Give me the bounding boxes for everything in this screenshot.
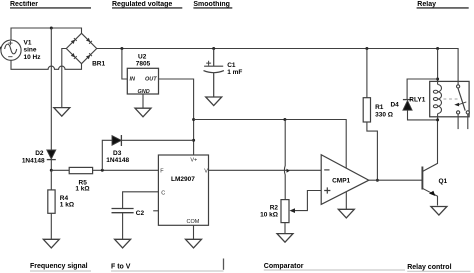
svg-text:7805: 7805: [136, 60, 151, 67]
label V1: [24, 40, 42, 61]
svg-text:10 kΩ: 10 kΩ: [260, 212, 278, 219]
svg-text:R1: R1: [375, 104, 384, 111]
underline Relay control: [407, 270, 470, 272]
ground under CMP1: [338, 209, 354, 218]
underline Rectifier: [10, 7, 91, 9]
label C2: [136, 210, 145, 217]
pin OUT: [145, 76, 157, 82]
node F line left junction: [50, 169, 53, 172]
section label Rectifier: [10, 1, 38, 8]
wire C2 to ground: [122, 213, 124, 240]
CMP1 plus pin mark: [324, 187, 330, 193]
label RLY1: [409, 97, 425, 104]
node D3 branch junction: [101, 169, 104, 172]
svg-text:V+: V+: [190, 158, 197, 164]
label U2: [136, 53, 151, 67]
svg-text:U2: U2: [138, 53, 147, 60]
diode D4 loop top wire: [407, 79, 438, 100]
label BR1: [92, 60, 105, 67]
capacitor C1: [204, 49, 224, 98]
wire V1 bottom to bridge bottom with hops: [11, 60, 82, 69]
node coil bottom junction: [436, 118, 439, 121]
relay common contact: [457, 85, 460, 88]
svg-text:GND: GND: [138, 89, 150, 95]
BR1 diode top-right: [86, 38, 92, 44]
wire throw stub left: [457, 114, 459, 129]
svg-text:1N4148: 1N4148: [106, 157, 129, 164]
section label Comparator: [264, 263, 304, 270]
C1 plus sign: [206, 61, 211, 66]
wire R1 bottom jog to output node: [367, 122, 378, 180]
diode D4: [403, 101, 412, 111]
svg-text:Relay: Relay: [417, 1, 436, 8]
ground under R2: [277, 234, 293, 243]
crossing arrow on minus wire: [287, 169, 290, 173]
diode D3: [112, 136, 121, 146]
label D4: [390, 102, 399, 109]
resistor R4: [48, 190, 55, 213]
Q1 emitter: [422, 188, 437, 205]
CMP1 minus pin mark: [324, 169, 329, 171]
wire R2 wiper to plus input: [294, 191, 321, 211]
potentiometer R2: [281, 200, 289, 223]
wire coil feed from rail: [437, 49, 439, 120]
svg-text:D2: D2: [35, 150, 44, 157]
label R2: [260, 205, 278, 219]
relay RLY1 box: [430, 81, 469, 116]
V1 plus sign: [8, 41, 12, 45]
wire comparator supply rail: [194, 120, 347, 169]
BR1 diode bottom-right: [86, 53, 92, 59]
wire throw stub right: [467, 114, 469, 129]
wire comparator output to Q1 base: [369, 179, 423, 181]
resistor R5: [69, 167, 92, 173]
ground under C2: [115, 239, 131, 248]
svg-text:Comparator: Comparator: [264, 263, 304, 270]
label C1: [227, 62, 242, 76]
relay blade: [458, 88, 465, 111]
wire LM2907 V out to comparator minus input: [209, 169, 322, 171]
svg-text:Smoothing: Smoothing: [193, 1, 230, 8]
pin V+: [190, 158, 197, 164]
source V1: [1, 40, 21, 60]
Q1 collector: [422, 120, 437, 172]
wire top rail V1 to bridge top: [11, 28, 82, 40]
wire R1 feed: [366, 49, 368, 98]
underline Regulated voltage: [112, 7, 182, 9]
svg-text:D4: D4: [390, 102, 399, 109]
relay actuation dashed line: [444, 98, 460, 100]
D3 cathode bar: [120, 135, 122, 146]
pin GND: [138, 89, 150, 95]
wire CMP1 V- to ground: [345, 192, 347, 210]
section label Frequency signal: [30, 263, 88, 270]
capacitor C2: [112, 209, 134, 213]
pin F: [160, 169, 164, 175]
svg-text:1 kΩ: 1 kΩ: [75, 186, 89, 193]
node comparator output junction: [376, 179, 379, 182]
svg-text:C: C: [161, 190, 165, 196]
wire 7805 GND to ground: [142, 94, 144, 108]
ground under bridge: [54, 108, 70, 117]
V1 minus sign: [8, 56, 12, 58]
label Q1: [439, 178, 448, 185]
underline Relay: [417, 7, 469, 9]
relay throw contact left: [457, 111, 460, 114]
svg-text:COM: COM: [187, 219, 200, 225]
pin IN: [130, 76, 137, 82]
wire C pin to C2: [123, 192, 159, 209]
node comparator supply junction: [192, 118, 195, 121]
svg-text:BR1: BR1: [92, 60, 105, 67]
node R2 top junction: [283, 118, 286, 121]
svg-text:Q1: Q1: [439, 178, 448, 185]
underline F to V: [111, 270, 224, 272]
svg-text:Rectifier: Rectifier: [10, 1, 38, 8]
section label Relay control: [407, 264, 451, 271]
underline Frequency signal: [30, 270, 91, 272]
node 7805 IN junction: [120, 47, 123, 50]
D4 cathode bar: [403, 99, 412, 101]
underline Smoothing: [193, 7, 232, 9]
ground under Q1 emitter: [431, 207, 447, 216]
wire COM to ground: [193, 225, 195, 239]
BR1 diode bottom-left: [71, 53, 77, 59]
svg-text:Regulated voltage: Regulated voltage: [112, 1, 172, 8]
relay actuation arrow: [459, 102, 467, 105]
D4 loop bottom wire: [408, 110, 438, 120]
node C1 junction: [212, 47, 215, 50]
pin C: [161, 190, 165, 196]
wire R4 down to ground: [50, 170, 52, 239]
R2 wiper arrowhead: [290, 208, 296, 213]
IC U1 LM2907 box: [158, 155, 208, 225]
ground under C1: [206, 97, 222, 106]
resistor R1: [363, 98, 370, 122]
wire D3 branch up: [102, 140, 112, 170]
label LM2907: [171, 176, 195, 183]
svg-text:CMP1: CMP1: [332, 178, 350, 185]
ground under LM2907 COM: [186, 239, 202, 248]
wire 7805 IN feed: [122, 49, 127, 80]
section label Smoothing: [193, 1, 230, 8]
svg-text:Frequency signal: Frequency signal: [30, 263, 88, 270]
wire R2 top with jog over minus wire: [283, 120, 286, 200]
label CMP1: [332, 178, 350, 185]
relay coil: [438, 85, 442, 114]
node top rail junction: [50, 27, 53, 30]
V1 left terminal stub: [0, 47, 2, 50]
label D2: [22, 150, 45, 165]
op-amp comparator CMP1: [321, 155, 369, 205]
D2 cathode bar: [47, 159, 56, 161]
svg-text:10 Hz: 10 Hz: [24, 54, 42, 61]
svg-text:F to V: F to V: [111, 264, 131, 271]
svg-text:RLY1: RLY1: [409, 97, 425, 104]
node D3 cathode junction: [192, 139, 195, 142]
svg-text:1N4148: 1N4148: [22, 158, 45, 165]
underline Comparator: [264, 269, 405, 271]
section label Regulated voltage: [112, 1, 172, 8]
section divider tick: [223, 259, 225, 270]
ground under R4: [43, 239, 59, 248]
wire D3 cathode to V+ node: [121, 139, 193, 141]
wire +V rail from bridge right to relay common: [97, 49, 458, 86]
svg-text:1 kΩ: 1 kΩ: [60, 201, 74, 208]
transistor Q1: [421, 167, 423, 190]
svg-text:LM2907: LM2907: [171, 176, 195, 183]
wire 7805 OUT to LM2907 V+: [159, 79, 194, 155]
pin V: [204, 169, 208, 175]
section label Relay: [417, 1, 436, 8]
node coil top junction: [436, 78, 439, 81]
wire D2 feed from top rail: [50, 28, 52, 150]
wire bridge left corner to ground: [62, 49, 67, 108]
svg-text:OUT: OUT: [145, 76, 157, 82]
svg-text:1 mF: 1 mF: [227, 69, 242, 76]
pin stub unlabeled: [153, 210, 158, 212]
label R5: [75, 179, 89, 192]
wire D2 to F node: [50, 160, 52, 171]
node relay coil junction: [436, 47, 439, 50]
svg-text:sine: sine: [24, 47, 37, 54]
label R4: [60, 195, 74, 208]
section label F to V: [111, 264, 131, 271]
pin COM: [187, 219, 200, 225]
relay coil loop knobs: [433, 90, 437, 93]
label R1: [375, 104, 393, 118]
ground under 7805: [135, 108, 151, 117]
label D3: [106, 150, 129, 164]
svg-text:330 Ω: 330 Ω: [375, 112, 393, 119]
Q1 emitter arrow: [429, 191, 435, 196]
V1 sine symbol: [5, 44, 17, 54]
regulator U2 7805 box: [127, 68, 158, 94]
bridge rectifier BR1: [66, 33, 96, 63]
BR1 diode top-left: [71, 38, 77, 44]
svg-text:V: V: [204, 169, 208, 175]
svg-text:R2: R2: [270, 205, 279, 212]
relay throw contact right: [466, 111, 469, 114]
wire F line: [51, 169, 158, 171]
svg-text:Relay control: Relay control: [407, 264, 451, 271]
svg-text:C2: C2: [136, 210, 145, 217]
wire R2 bottom to ground: [284, 223, 286, 234]
diode D2: [47, 150, 56, 159]
node R1 junction: [365, 47, 368, 50]
